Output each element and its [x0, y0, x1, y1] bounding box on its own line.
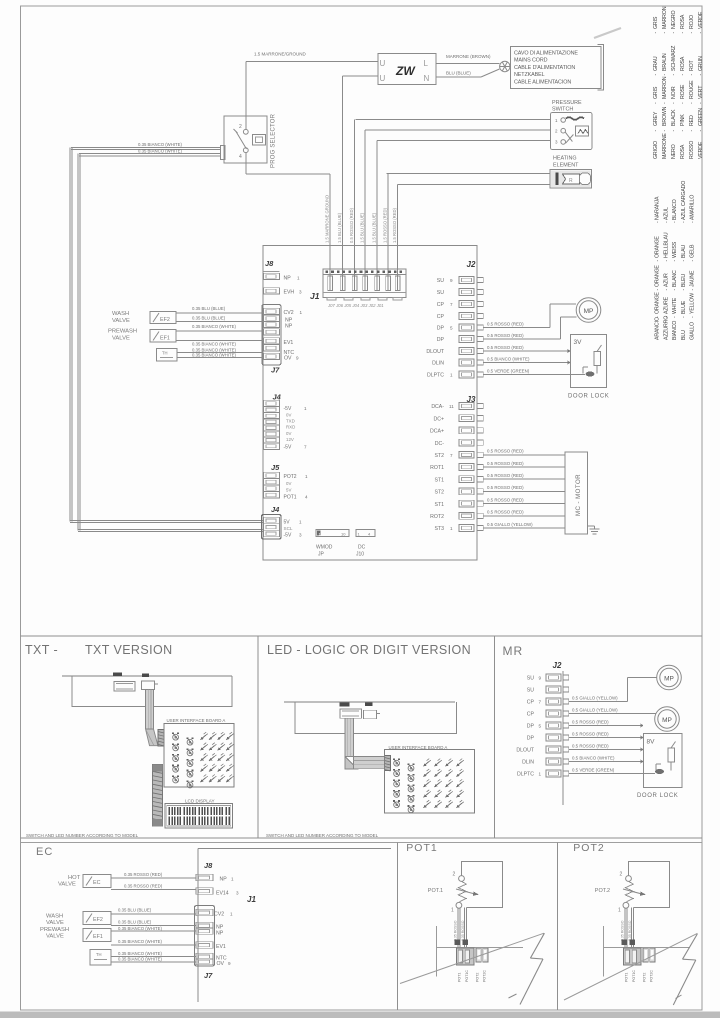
- svg-text:1: 1: [231, 877, 234, 882]
- svg-text:-: -: [671, 102, 677, 104]
- svg-text:J5: J5: [271, 463, 280, 472]
- svg-text:NOIR: NOIR: [671, 86, 677, 99]
- svg-text:-: -: [671, 32, 677, 34]
- svg-text:BLAU: BLAU: [681, 245, 687, 258]
- svg-text:DLIN: DLIN: [522, 760, 534, 766]
- svg-text:MARRON: MARRON: [662, 76, 668, 99]
- svg-text:DCA+: DCA+: [430, 429, 444, 435]
- svg-text:-: -: [689, 102, 695, 104]
- svg-text:0.5 ROSSO (RED): 0.5 ROSSO (RED): [572, 743, 609, 748]
- svg-text:MP: MP: [584, 308, 594, 315]
- svg-text:CABLE D'ALIMENTATION: CABLE D'ALIMENTATION: [514, 65, 575, 71]
- svg-text:VERDE: VERDE: [698, 11, 704, 29]
- svg-text:5V: 5V: [286, 488, 291, 493]
- svg-text:HEATING: HEATING: [553, 156, 577, 162]
- svg-text:POT1: POT1: [458, 973, 462, 982]
- svg-text:0.5 GIALLO (YELLOW): 0.5 GIALLO (YELLOW): [487, 522, 533, 527]
- svg-text:10: 10: [341, 532, 346, 537]
- svg-text:DP: DP: [527, 724, 535, 730]
- svg-text:GRIS: GRIS: [653, 16, 659, 29]
- svg-text:11: 11: [449, 404, 454, 409]
- svg-text:-: -: [655, 316, 661, 318]
- svg-text:WASH: WASH: [112, 311, 129, 317]
- svg-text:MR: MR: [503, 644, 524, 658]
- svg-text:ROSE: ROSE: [680, 84, 686, 99]
- svg-text:-: -: [663, 289, 669, 291]
- svg-text:1.5 MARRONE/GROUND: 1.5 MARRONE/GROUND: [254, 52, 307, 57]
- svg-text:-: -: [655, 289, 661, 291]
- svg-text:-: -: [653, 32, 659, 34]
- svg-text:TH: TH: [96, 952, 102, 957]
- svg-text:1: 1: [300, 310, 303, 315]
- svg-text:1: 1: [618, 908, 621, 914]
- svg-text:ROJO: ROJO: [689, 15, 695, 29]
- svg-text:-: -: [662, 32, 668, 34]
- svg-text:NP: NP: [216, 931, 224, 937]
- svg-text:NP: NP: [220, 877, 228, 883]
- svg-text:J7: J7: [204, 971, 213, 980]
- svg-text:YELLOW: YELLOW: [690, 293, 696, 314]
- svg-text:SU: SU: [527, 676, 534, 682]
- svg-text:AMARILLO: AMARILLO: [690, 195, 696, 220]
- svg-text:0.35 BIANCO (WHITE): 0.35 BIANCO (WHITE): [192, 342, 236, 347]
- svg-text:VERDE: VERDE: [698, 141, 704, 159]
- svg-text:TXT VERSION: TXT VERSION: [85, 643, 173, 657]
- svg-text:SCL: SCL: [284, 526, 293, 531]
- svg-text:-: -: [680, 130, 686, 132]
- svg-text:VALVE: VALVE: [58, 882, 76, 888]
- svg-text:J2: J2: [467, 260, 476, 269]
- svg-text:DOOR LOCK: DOOR LOCK: [637, 793, 678, 799]
- svg-text:POT1: POT1: [406, 842, 437, 854]
- svg-text:BLUE: BLUE: [681, 300, 687, 314]
- svg-text:-5V: -5V: [284, 533, 292, 539]
- svg-text:0.5 ROSSO (RED): 0.5 ROSSO (RED): [487, 321, 524, 326]
- svg-text:CP: CP: [437, 302, 445, 308]
- svg-text:0V: 0V: [286, 431, 291, 436]
- svg-text:0.35 BIANCO (WHITE): 0.35 BIANCO (WHITE): [118, 926, 162, 931]
- svg-text:ROSA: ROSA: [680, 56, 686, 71]
- svg-text:GELB: GELB: [690, 244, 696, 258]
- svg-text:J2: J2: [553, 661, 562, 670]
- svg-text:-: -: [672, 221, 678, 223]
- svg-text:J8: J8: [265, 259, 274, 268]
- svg-text:0.35 BLU (BLUE): 0.35 BLU (BLUE): [192, 316, 226, 321]
- svg-text:1: 1: [451, 908, 454, 914]
- svg-text:CV2: CV2: [214, 912, 224, 918]
- svg-text:0.5 ROSSO (RED): 0.5 ROSSO (RED): [487, 510, 524, 515]
- svg-text:POT1: POT1: [625, 973, 629, 982]
- svg-text:-: -: [672, 316, 678, 318]
- svg-text:5: 5: [450, 326, 453, 331]
- svg-text:DP: DP: [527, 736, 535, 742]
- svg-text:-5V: -5V: [284, 406, 292, 412]
- svg-text:NERO: NERO: [671, 144, 677, 159]
- svg-text:1.5 ROSSO (RED): 1.5 ROSSO (RED): [392, 207, 397, 243]
- svg-text:EF1: EF1: [93, 934, 103, 940]
- svg-text:1.5 BLU (BLUE): 1.5 BLU (BLUE): [360, 212, 365, 243]
- svg-text:VALVE: VALVE: [46, 934, 64, 940]
- svg-text:0.5 ROSSO (RED): 0.5 ROSSO (RED): [572, 731, 609, 736]
- svg-text:1: 1: [450, 526, 453, 531]
- svg-text:NETZKABEL: NETZKABEL: [514, 72, 545, 78]
- svg-text:NP: NP: [284, 276, 292, 282]
- svg-text:MP: MP: [664, 676, 674, 683]
- svg-text:-: -: [689, 130, 695, 132]
- svg-text:U: U: [380, 59, 386, 68]
- svg-text:-: -: [681, 221, 687, 223]
- svg-text:DLOUT: DLOUT: [426, 349, 444, 355]
- svg-text:GIALLO: GIALLO: [690, 322, 696, 340]
- svg-text:-: -: [689, 74, 695, 76]
- svg-text:5V: 5V: [284, 520, 291, 526]
- svg-text:WMOD: WMOD: [316, 545, 333, 551]
- svg-text:ROSA: ROSA: [680, 144, 686, 159]
- svg-text:RED: RED: [689, 115, 695, 126]
- svg-text:9: 9: [450, 278, 453, 283]
- svg-text:-: -: [671, 74, 677, 76]
- svg-text:AZUR: AZUR: [663, 273, 669, 287]
- svg-text:0.5 ROSSO (RED): 0.5 ROSSO (RED): [487, 449, 524, 454]
- svg-text:EC: EC: [36, 846, 53, 858]
- svg-text:0.35 BIANCO (WHITE): 0.35 BIANCO (WHITE): [138, 142, 182, 147]
- svg-text:-: -: [662, 74, 668, 76]
- svg-text:EVH: EVH: [284, 290, 295, 296]
- svg-text:4: 4: [239, 154, 242, 160]
- svg-text:EV14: EV14: [216, 891, 229, 897]
- svg-text:-: -: [672, 289, 678, 291]
- svg-text:EF2: EF2: [160, 317, 170, 323]
- svg-text:-: -: [698, 74, 704, 76]
- svg-text:0.5 VERDE (GREEN): 0.5 VERDE (GREEN): [572, 767, 615, 772]
- svg-text:BRAUN: BRAUN: [662, 53, 668, 71]
- svg-text:-: -: [653, 130, 659, 132]
- svg-text:USER INTERFACE BOARD A: USER INTERFACE BOARD A: [167, 718, 226, 723]
- svg-text:CV2: CV2: [284, 310, 294, 316]
- svg-text:DLIN: DLIN: [432, 361, 444, 367]
- svg-text:EF1: EF1: [160, 336, 170, 342]
- svg-text:SCHWARZ: SCHWARZ: [671, 45, 677, 71]
- svg-text:POT2C: POT2C: [483, 970, 487, 982]
- svg-text:DLPTC: DLPTC: [427, 373, 444, 379]
- svg-text:EV1: EV1: [216, 944, 226, 950]
- svg-text:7: 7: [304, 445, 307, 450]
- svg-text:ROUGE: ROUGE: [689, 80, 695, 99]
- svg-text:J7: J7: [271, 366, 280, 375]
- svg-text:CP: CP: [527, 712, 535, 718]
- svg-text:PREWASH: PREWASH: [40, 927, 69, 933]
- svg-text:-: -: [655, 221, 661, 223]
- svg-text:J1: J1: [247, 895, 256, 904]
- svg-text:EF2: EF2: [93, 917, 103, 923]
- svg-text:7: 7: [450, 302, 453, 307]
- svg-text:DCA-: DCA-: [431, 404, 444, 410]
- svg-text:GREY: GREY: [653, 111, 659, 126]
- svg-text:1.5 BLU (BLUE): 1.5 BLU (BLUE): [372, 212, 377, 243]
- svg-text:POT2: POT2: [573, 842, 604, 854]
- svg-text:3: 3: [299, 290, 302, 295]
- svg-text:POT.2: POT.2: [595, 888, 610, 894]
- svg-text:MARRON: MARRON: [662, 6, 668, 29]
- svg-text:0.5 GIALLO (YELLOW): 0.5 GIALLO (YELLOW): [572, 707, 618, 712]
- svg-text:0.35 BIANCO (WHITE): 0.35 BIANCO (WHITE): [192, 353, 236, 358]
- svg-text:MARRONE (BROWN): MARRONE (BROWN): [446, 54, 491, 59]
- svg-text:1.5 BLU (BLUE): 1.5 BLU (BLUE): [337, 212, 342, 243]
- svg-text:POT2C: POT2C: [650, 970, 654, 982]
- svg-text:SU: SU: [527, 688, 534, 694]
- svg-text:-: -: [681, 316, 687, 318]
- svg-text:OV: OV: [284, 356, 292, 362]
- svg-text:ST1: ST1: [434, 502, 444, 508]
- svg-text:-: -: [662, 130, 668, 132]
- svg-text:0.5 BIANCO (WHITE): 0.5 BIANCO (WHITE): [572, 755, 615, 760]
- svg-text:ST2: ST2: [434, 453, 444, 459]
- svg-text:0.5 ROSSO (RED): 0.5 ROSSO (RED): [487, 461, 524, 466]
- svg-text:3: 3: [236, 891, 239, 896]
- svg-text:GRIS: GRIS: [653, 86, 659, 99]
- svg-text:12V: 12V: [286, 437, 294, 442]
- svg-text:RXD: RXD: [286, 425, 295, 430]
- svg-text:1: 1: [450, 373, 453, 378]
- svg-text:VERT: VERT: [698, 85, 704, 99]
- svg-text:DP: DP: [437, 337, 445, 343]
- svg-text:0.5 ROSSO (RED): 0.5 ROSSO (RED): [487, 485, 524, 490]
- svg-text:2: 2: [453, 872, 456, 878]
- svg-text:0.35 BIANCO (WHITE): 0.35 BIANCO (WHITE): [118, 939, 162, 944]
- svg-text:-: -: [689, 32, 695, 34]
- svg-text:BLEU: BLEU: [681, 274, 687, 287]
- svg-text:TH: TH: [162, 351, 168, 356]
- svg-text:-: -: [680, 32, 686, 34]
- svg-text:0.35 ROSSO (RED): 0.35 ROSSO (RED): [124, 872, 163, 877]
- svg-text:N: N: [424, 74, 430, 83]
- svg-text:-: -: [681, 289, 687, 291]
- svg-text:MP: MP: [662, 717, 672, 724]
- svg-text:VALVE: VALVE: [46, 920, 64, 926]
- svg-text:BLANC: BLANC: [672, 270, 678, 287]
- svg-text:ELEMENT: ELEMENT: [553, 163, 579, 169]
- svg-text:-: -: [663, 260, 669, 262]
- svg-text:0.5 GIALLO (YELLOW): 0.5 GIALLO (YELLOW): [572, 695, 618, 700]
- svg-text:ARANCIO: ARANCIO: [655, 317, 661, 340]
- svg-text:JP: JP: [318, 552, 325, 558]
- svg-text:-: -: [671, 130, 677, 132]
- svg-text:BIANCO: BIANCO: [672, 321, 678, 340]
- svg-text:VALVE: VALVE: [112, 318, 130, 324]
- svg-text:NEGRO: NEGRO: [671, 10, 677, 29]
- svg-text:DLPTC: DLPTC: [517, 772, 534, 778]
- svg-text:0.5 ROSSO (RED): 0.5 ROSSO (RED): [487, 333, 524, 338]
- svg-text:CP: CP: [437, 314, 445, 320]
- svg-text:POT1C: POT1C: [632, 970, 636, 982]
- svg-text:9: 9: [539, 676, 542, 681]
- svg-text:DP: DP: [437, 326, 445, 332]
- svg-text:7: 7: [539, 700, 542, 705]
- svg-text:DC+: DC+: [433, 416, 444, 422]
- svg-text:1: 1: [305, 474, 308, 479]
- svg-text:-: -: [680, 102, 686, 104]
- svg-text:GRIGIO: GRIGIO: [653, 141, 659, 159]
- svg-text:0V: 0V: [286, 413, 291, 418]
- svg-text:AZUL CARGADO: AZUL CARGADO: [681, 181, 687, 220]
- svg-text:0.35 BLU (BLUE): 0.35 BLU (BLUE): [118, 908, 152, 913]
- svg-text:NP: NP: [285, 324, 293, 330]
- svg-text:0.5 ROSSO (RED): 0.5 ROSSO (RED): [487, 497, 524, 502]
- svg-text:ST3: ST3: [434, 526, 444, 532]
- svg-text:POT1: POT1: [284, 495, 297, 501]
- svg-text:0.35 ROSSO: 0.35 ROSSO: [628, 920, 632, 941]
- svg-text:VALVE: VALVE: [112, 336, 130, 342]
- svg-text:-5V: -5V: [284, 445, 292, 451]
- svg-text:AZURE: AZURE: [663, 296, 669, 314]
- svg-text:-: -: [681, 260, 687, 262]
- svg-text:-: -: [662, 102, 668, 104]
- svg-text:ROT2: ROT2: [430, 514, 444, 520]
- svg-text:NARANJA: NARANJA: [655, 196, 661, 220]
- svg-text:ORANGE: ORANGE: [655, 292, 661, 314]
- svg-text:-: -: [690, 221, 696, 223]
- svg-text:ROT: ROT: [689, 59, 695, 71]
- svg-text:WEISS: WEISS: [672, 241, 678, 258]
- svg-text:0.35 BIANCO (WHITE): 0.35 BIANCO (WHITE): [118, 951, 162, 956]
- svg-text:ROSA: ROSA: [680, 14, 686, 29]
- svg-text:0.35 BLU (BLUE): 0.35 BLU (BLUE): [192, 306, 226, 311]
- svg-text:LED - LOGIC OR DIGIT VERSION: LED - LOGIC OR DIGIT VERSION: [267, 643, 471, 657]
- svg-text:3: 3: [299, 533, 302, 538]
- svg-text:BLU (BLUE): BLU (BLUE): [446, 71, 471, 76]
- svg-text:SU: SU: [437, 278, 444, 284]
- svg-text:9: 9: [296, 356, 299, 361]
- svg-text:R: R: [569, 178, 573, 184]
- svg-text:CP: CP: [527, 700, 535, 706]
- svg-text:1: 1: [304, 406, 307, 411]
- svg-text:SU: SU: [437, 290, 444, 296]
- svg-text:JAUNE: JAUNE: [690, 270, 696, 287]
- svg-text:CABLE ALIMENTACION: CABLE ALIMENTACION: [514, 79, 571, 85]
- svg-text:1: 1: [539, 772, 542, 777]
- svg-text:EC: EC: [93, 880, 101, 886]
- svg-text:GRAU: GRAU: [653, 56, 659, 71]
- svg-text:J07 J06 J05 J04 J03 J02 J01: J07 J06 J05 J04 J03 J02 J01: [327, 303, 384, 308]
- svg-text:5: 5: [539, 724, 542, 729]
- svg-text:DC: DC: [358, 545, 366, 551]
- svg-text:1: 1: [297, 276, 300, 281]
- svg-text:POT2: POT2: [476, 973, 480, 982]
- svg-text:0V: 0V: [286, 481, 291, 486]
- svg-text:BLU: BLU: [681, 330, 687, 340]
- svg-text:PINK: PINK: [680, 114, 686, 126]
- svg-text:BLANCO: BLANCO: [672, 199, 678, 220]
- svg-text:HOT: HOT: [68, 875, 81, 881]
- svg-text:-: -: [653, 102, 659, 104]
- svg-text:POT2: POT2: [643, 973, 647, 982]
- svg-text:U: U: [380, 74, 386, 83]
- svg-text:WASH: WASH: [46, 914, 63, 920]
- svg-text:POT.1: POT.1: [428, 888, 443, 894]
- svg-text:0.35 ROSSO: 0.35 ROSSO: [620, 920, 624, 941]
- svg-text:WHITE: WHITE: [672, 297, 678, 314]
- svg-text:0.5 VERDE (GREEN): 0.5 VERDE (GREEN): [487, 368, 530, 373]
- svg-text:-: -: [655, 260, 661, 262]
- svg-text:AZUL: AZUL: [663, 207, 669, 220]
- svg-text:OV: OV: [217, 961, 225, 967]
- svg-text:1: 1: [299, 520, 302, 525]
- svg-text:PREWASH: PREWASH: [108, 329, 137, 335]
- svg-text:J1: J1: [310, 291, 320, 301]
- svg-text:ORANGE: ORANGE: [655, 265, 661, 287]
- svg-text:-: -: [690, 316, 696, 318]
- svg-text:-: -: [690, 289, 696, 291]
- svg-text:0.35 BIANCO (WHITE): 0.35 BIANCO (WHITE): [192, 347, 236, 352]
- svg-text:0.35 ROSSO (RED): 0.35 ROSSO (RED): [124, 884, 163, 889]
- svg-text:8V: 8V: [647, 739, 656, 746]
- svg-text:1.5 MARRONE GROUND: 1.5 MARRONE GROUND: [325, 195, 330, 243]
- svg-text:0.5 ROSSO (RED): 0.5 ROSSO (RED): [487, 473, 524, 478]
- svg-text:-: -: [663, 221, 669, 223]
- svg-text:BLACK: BLACK: [671, 109, 677, 126]
- svg-text:-: -: [672, 260, 678, 262]
- svg-text:0.35 BLU (BLUE): 0.35 BLU (BLUE): [118, 920, 152, 925]
- svg-text:POT1C: POT1C: [465, 970, 469, 982]
- svg-text:9: 9: [228, 961, 231, 966]
- svg-text:4: 4: [305, 495, 308, 500]
- svg-text:0.5 ROSSO (RED): 0.5 ROSSO (RED): [487, 345, 524, 350]
- svg-text:AZZURRO: AZZURRO: [663, 316, 669, 340]
- svg-text:PRESSURE: PRESSURE: [552, 100, 582, 106]
- svg-text:2: 2: [239, 124, 242, 130]
- svg-text:SWITCH AND LED NUMBER ACCORDIN: SWITCH AND LED NUMBER ACCORDING TO MODEL: [26, 833, 139, 838]
- svg-text:-: -: [698, 130, 704, 132]
- svg-text:J10: J10: [356, 552, 364, 558]
- svg-text:MC - MOTOR: MC - MOTOR: [575, 474, 582, 516]
- svg-text:DOOR LOCK: DOOR LOCK: [568, 394, 609, 400]
- svg-text:ROSSO: ROSSO: [689, 141, 695, 159]
- svg-text:ST2: ST2: [434, 490, 444, 496]
- svg-text:EV1: EV1: [284, 340, 294, 346]
- svg-text:DC-: DC-: [435, 441, 444, 447]
- svg-text:-: -: [690, 260, 696, 262]
- svg-text:7: 7: [450, 453, 453, 458]
- svg-text:0.5 ROSSO (RED): 0.5 ROSSO (RED): [572, 719, 609, 724]
- svg-text:2: 2: [620, 872, 623, 878]
- svg-text:-: -: [663, 316, 669, 318]
- svg-text:SWITCH: SWITCH: [552, 107, 573, 113]
- svg-text:0.5 BIANCO (WHITE): 0.5 BIANCO (WHITE): [487, 356, 530, 361]
- svg-text:0.5 ROSSO (RED): 0.5 ROSSO (RED): [349, 207, 354, 243]
- svg-text:ORANGE: ORANGE: [655, 236, 661, 258]
- svg-text:0.35 BIANCO (WHITE): 0.35 BIANCO (WHITE): [192, 324, 236, 329]
- svg-text:ST1: ST1: [434, 477, 444, 483]
- svg-text:-: -: [698, 102, 704, 104]
- svg-text:GREEN: GREEN: [698, 108, 704, 126]
- svg-text:TXT -: TXT -: [25, 643, 58, 657]
- svg-text:DLOUT: DLOUT: [516, 748, 534, 754]
- svg-text:ROT1: ROT1: [430, 465, 444, 471]
- svg-text:BROWN: BROWN: [662, 106, 668, 126]
- svg-text:J4: J4: [271, 505, 280, 514]
- svg-text:CAVO DI ALIMENTAZIONE: CAVO DI ALIMENTAZIONE: [514, 51, 578, 57]
- svg-text:TXD: TXD: [286, 419, 295, 424]
- svg-text:J8: J8: [204, 861, 213, 870]
- svg-text:-: -: [680, 74, 686, 76]
- svg-text:PROG SELECTOR: PROG SELECTOR: [271, 113, 277, 168]
- svg-text:3V: 3V: [574, 339, 583, 346]
- svg-text:-: -: [653, 74, 659, 76]
- svg-text:HELLBLAU: HELLBLAU: [663, 232, 669, 258]
- svg-text:0.35 BIANCO (WHITE): 0.35 BIANCO (WHITE): [118, 957, 162, 962]
- svg-text:ZW: ZW: [395, 64, 416, 78]
- svg-text:0.35 ROSSO: 0.35 ROSSO: [453, 920, 457, 941]
